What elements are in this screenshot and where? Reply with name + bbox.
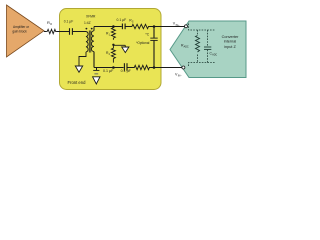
node dot top of R1 [112,25,115,28]
transformer T1 primary winding [86,32,88,52]
wire center tap to ground [113,44,125,46]
phase dot secondary [91,28,93,30]
node dot optional cap top [153,25,156,28]
bottom rail wire [94,67,124,69]
terminal VIN- [182,66,185,69]
svg-text:0.1 µF: 0.1 µF [117,18,127,22]
resistor R2 termination lower [111,46,115,63]
svg-text:*Optional: *Optional [136,41,149,45]
resistor RADC [196,36,200,53]
svg-text:0.1 µF: 0.1 µF [103,69,114,73]
svg-text:0.1 µF: 0.1 µF [64,20,73,24]
wire primary to ground [79,52,86,66]
svg-text:input Z: input Z [224,45,236,49]
transformer core [88,31,90,53]
svg-text:internal: internal [224,40,237,44]
capacitor C2 top rail [121,24,123,30]
svg-text:*C: *C [145,33,149,37]
ground bottom center [96,68,98,71]
terminal VIN+ [185,25,188,28]
svg-text:Converter: Converter [222,35,239,39]
resistor RO [46,29,56,33]
svg-text:Front end: Front end [68,80,87,85]
ground primary [75,66,82,72]
capacitor C3 bottom rail [123,63,125,71]
svg-text:XFMR: XFMR [86,14,96,18]
capacitor CADC [204,46,211,48]
capacitor C1 0.1uF [69,28,71,35]
svg-text:IN+: IN+ [176,24,181,27]
wire amp output [44,31,46,33]
svg-text:ADC: ADC [212,54,217,57]
front-end block background [60,9,162,90]
node dot bottom of R2 [112,66,115,69]
optional capacitor C [153,27,155,38]
phase dot primary [86,28,88,30]
svg-text:IN–: IN– [178,75,183,78]
svg-text:Amplifier or: Amplifier or [13,25,30,29]
dashed internal wiring [189,24,216,67]
svg-text:ADC: ADC [184,45,189,48]
wire to C1 [56,31,69,33]
svg-text:O: O [50,22,53,26]
resistor RS top rail [131,24,149,28]
wire secondary top to rail [93,27,95,31]
wire secondary bottom down [93,52,95,68]
wire C1 to transformer [73,31,86,33]
transformer T1 secondary winding [91,31,94,52]
node dot optional cap bottom [153,66,156,69]
node dot center tap [112,44,114,46]
top rail wire [94,26,122,28]
converter block background [170,21,246,78]
svg-text:gain block: gain block [12,30,27,34]
ground center tap [122,47,129,53]
resistor R1 termination upper [111,27,115,40]
svg-text:1:4Z: 1:4Z [84,21,91,25]
resistor RS2 bottom rail [134,65,151,69]
svg-text:0.1 µF: 0.1 µF [121,69,132,73]
amplifier U1 gain block [7,5,45,57]
